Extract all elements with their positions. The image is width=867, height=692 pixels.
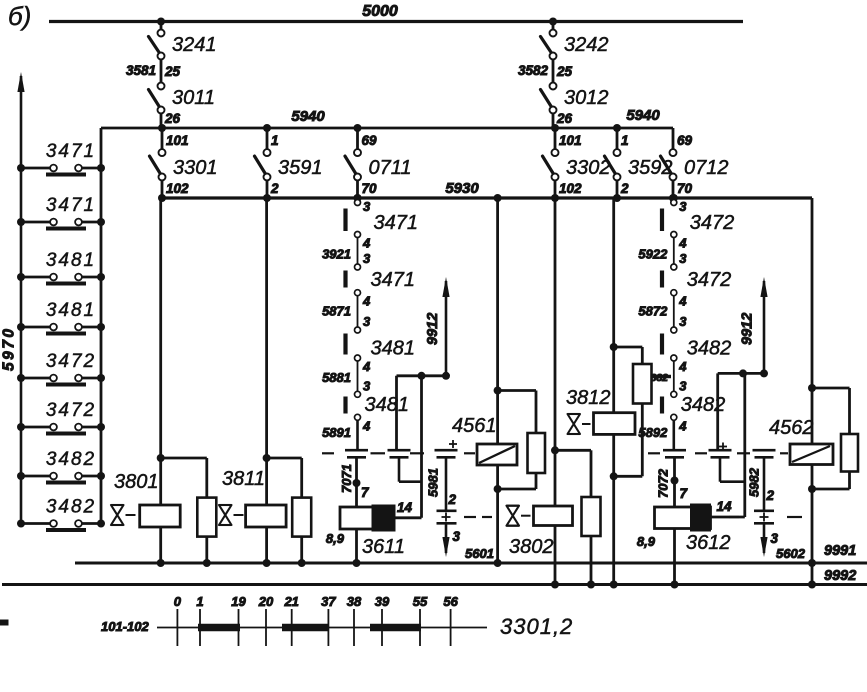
svg-text:3482: 3482 (46, 449, 96, 470)
svg-text:69: 69 (677, 133, 693, 148)
svg-text:5872: 5872 (638, 304, 668, 319)
svg-text:3302: 3302 (566, 157, 611, 179)
svg-text:5940: 5940 (291, 108, 325, 125)
svg-text:4: 4 (362, 418, 371, 433)
svg-text:2: 2 (766, 488, 775, 503)
svg-text:3: 3 (363, 314, 371, 329)
svg-text:б): б) (8, 1, 31, 31)
svg-text:39: 39 (375, 594, 390, 609)
svg-text:7: 7 (680, 486, 689, 501)
svg-text:5922: 5922 (638, 247, 668, 262)
svg-text:0712: 0712 (684, 157, 729, 179)
svg-text:5881: 5881 (322, 370, 351, 385)
svg-text:38: 38 (347, 594, 362, 609)
svg-text:4: 4 (362, 294, 371, 309)
svg-text:3811: 3811 (222, 468, 265, 490)
svg-text:3592: 3592 (628, 157, 673, 179)
svg-text:5891: 5891 (322, 425, 351, 440)
svg-text:3472: 3472 (687, 269, 732, 291)
svg-text:101-102: 101-102 (101, 619, 149, 634)
svg-text:3481: 3481 (46, 250, 96, 271)
svg-text:3481: 3481 (46, 300, 96, 321)
svg-text:101: 101 (559, 133, 582, 148)
svg-text:3921: 3921 (322, 247, 351, 262)
svg-text:5982: 5982 (747, 467, 762, 497)
svg-text:4: 4 (678, 294, 687, 309)
svg-text:9912: 9912 (425, 313, 441, 345)
svg-text:9991: 9991 (824, 543, 856, 559)
svg-text:9912: 9912 (740, 313, 756, 345)
svg-text:3: 3 (363, 199, 371, 214)
svg-text:3: 3 (363, 378, 371, 393)
svg-text:70: 70 (677, 181, 693, 196)
svg-text:26: 26 (556, 111, 573, 126)
svg-text:3: 3 (771, 531, 779, 546)
svg-text:3482: 3482 (687, 338, 732, 360)
svg-text:4562: 4562 (769, 417, 814, 439)
svg-text:3: 3 (679, 378, 687, 393)
svg-text:3472: 3472 (46, 351, 96, 372)
svg-text:3: 3 (453, 529, 461, 544)
svg-text:3482: 3482 (46, 497, 96, 518)
svg-text:7071: 7071 (339, 464, 354, 493)
svg-text:25: 25 (164, 64, 181, 79)
svg-text:3301,2: 3301,2 (500, 614, 573, 639)
svg-text:101: 101 (166, 133, 189, 148)
svg-text:3301: 3301 (173, 157, 218, 179)
svg-text:26: 26 (164, 111, 181, 126)
svg-text:8,9: 8,9 (637, 534, 656, 549)
svg-text:3011: 3011 (172, 87, 215, 109)
svg-text:3481: 3481 (365, 394, 410, 416)
svg-text:5871: 5871 (322, 304, 351, 319)
svg-text:3472: 3472 (46, 400, 96, 421)
svg-text:21: 21 (283, 594, 298, 609)
svg-text:4: 4 (678, 359, 687, 374)
svg-text:5940: 5940 (626, 107, 660, 124)
svg-text:5981: 5981 (426, 468, 441, 497)
svg-text:3582: 3582 (518, 63, 549, 78)
svg-text:5000: 5000 (362, 3, 398, 20)
svg-text:3591: 3591 (278, 157, 323, 179)
svg-text:20: 20 (258, 594, 274, 609)
svg-text:7: 7 (361, 485, 370, 500)
svg-text:7072: 7072 (656, 468, 671, 498)
svg-text:4561: 4561 (452, 415, 497, 437)
svg-text:3472: 3472 (690, 212, 735, 234)
svg-text:1: 1 (196, 594, 203, 609)
svg-text:3241: 3241 (172, 34, 217, 56)
svg-text:14: 14 (717, 499, 733, 514)
svg-text:3481: 3481 (371, 338, 416, 360)
svg-text:3802: 3802 (509, 536, 554, 558)
svg-text:4: 4 (362, 359, 371, 374)
svg-text:5970: 5970 (1, 327, 18, 371)
svg-text:19: 19 (231, 594, 246, 609)
svg-text:37: 37 (321, 594, 336, 609)
svg-text:3812: 3812 (566, 387, 611, 409)
svg-text:69: 69 (362, 133, 378, 148)
svg-text:3471: 3471 (374, 212, 419, 234)
svg-text:9992: 9992 (824, 568, 856, 584)
svg-text:3012: 3012 (564, 87, 609, 109)
svg-text:102: 102 (166, 181, 189, 196)
svg-text:70: 70 (362, 181, 378, 196)
svg-text:25: 25 (556, 64, 573, 79)
svg-text:5930: 5930 (445, 180, 479, 197)
svg-text:3611: 3611 (362, 536, 405, 558)
svg-text:4: 4 (362, 236, 371, 251)
svg-text:14: 14 (397, 500, 413, 515)
svg-text:3: 3 (679, 199, 687, 214)
svg-text:3471: 3471 (371, 269, 416, 291)
svg-text:8,9: 8,9 (326, 531, 345, 546)
svg-text:2: 2 (620, 181, 629, 196)
svg-text:102: 102 (559, 181, 582, 196)
svg-text:3471: 3471 (46, 195, 96, 216)
svg-text:5602: 5602 (776, 546, 806, 561)
svg-text:3: 3 (679, 314, 687, 329)
svg-text:5601: 5601 (465, 546, 494, 561)
svg-text:3471: 3471 (46, 141, 96, 162)
svg-text:4: 4 (678, 236, 687, 251)
svg-text:56: 56 (443, 594, 458, 609)
svg-text:3612: 3612 (686, 532, 731, 554)
svg-text:2: 2 (448, 492, 457, 507)
svg-text:3801: 3801 (114, 471, 159, 493)
svg-text:3242: 3242 (564, 34, 609, 56)
svg-text:1: 1 (621, 133, 629, 148)
svg-text:3: 3 (679, 251, 687, 266)
svg-text:2: 2 (270, 181, 279, 196)
svg-text:3: 3 (363, 251, 371, 266)
svg-text:3581: 3581 (126, 63, 156, 78)
svg-text:0711: 0711 (369, 157, 412, 179)
svg-text:0: 0 (174, 594, 182, 609)
svg-text:4: 4 (678, 418, 687, 433)
svg-text:1: 1 (271, 133, 279, 148)
svg-text:55: 55 (413, 594, 428, 609)
